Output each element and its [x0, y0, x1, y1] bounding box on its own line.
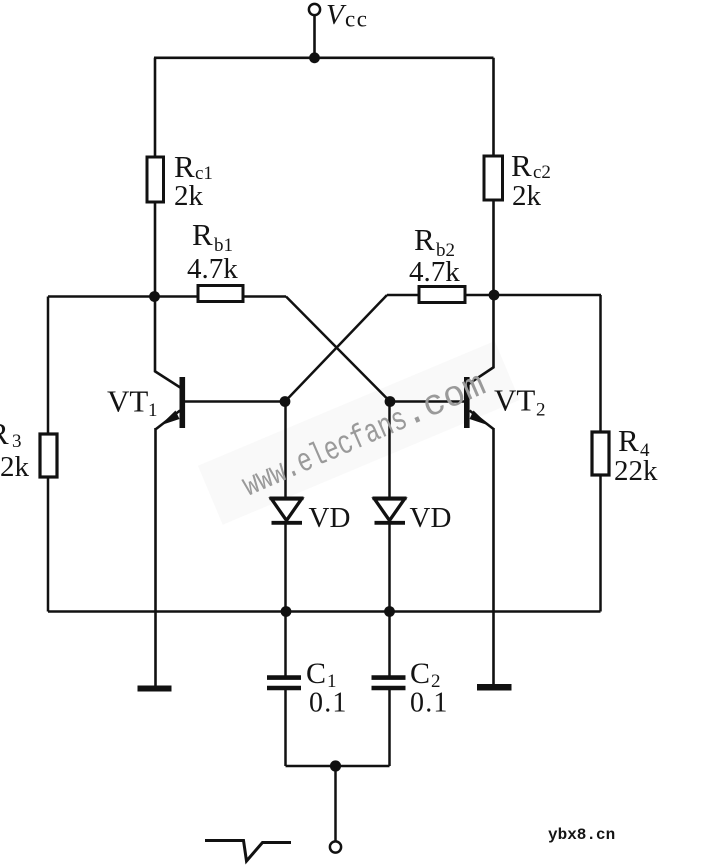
wire Rc1 to node B1 — [154, 200, 157, 297]
junction Vcc node — [309, 52, 320, 63]
wire VD2 to bottom rail — [388, 523, 391, 612]
transistor VT2 base bar — [464, 377, 470, 428]
transistor VT1 emitter arrow — [160, 411, 180, 426]
transistor VT1 base bar — [180, 377, 186, 428]
junction bottom rail right — [384, 606, 395, 617]
wire C2 down — [388, 689, 391, 766]
diode VD1 — [270, 496, 304, 500]
ground VT2 — [477, 684, 512, 691]
wire base VT2 node down to diode VD2 — [388, 402, 391, 499]
junction node base VT2 — [385, 396, 396, 407]
svg-text:1: 1 — [148, 400, 158, 421]
svg-text:R: R — [174, 149, 195, 184]
wire bottom rail — [48, 610, 601, 613]
svg-text:2k: 2k — [174, 180, 204, 212]
svg-text:R: R — [192, 217, 213, 252]
wire VD1 to bottom rail — [284, 523, 287, 612]
trigger pulse waveform — [205, 841, 291, 862]
svg-text:C: C — [306, 657, 326, 690]
junction node B2 — [489, 290, 500, 301]
wire output stub — [334, 766, 337, 842]
wire rail to C2 — [388, 612, 391, 677]
resistor Rc1 — [147, 157, 164, 202]
svg-text:0.1: 0.1 — [309, 688, 348, 719]
transistor VT2 base lead — [390, 400, 464, 403]
transistor VT2 collector lead — [469, 367, 495, 384]
svg-text:R: R — [0, 416, 9, 451]
wire bottom joining bar — [286, 765, 390, 768]
svg-text:2: 2 — [536, 400, 546, 421]
wire emitter VT1 down — [154, 428, 157, 686]
svg-text:ybx8.cn: ybx8.cn — [548, 826, 615, 844]
svg-text:0.1: 0.1 — [410, 688, 449, 719]
svg-text:R: R — [618, 423, 639, 458]
wire right drop to Rc2 — [492, 58, 495, 157]
svg-text:R: R — [414, 222, 435, 257]
wire left horizontal at node B1 — [48, 295, 286, 298]
resistor Rb1 — [198, 286, 243, 302]
wire Rc2 to node B2 — [492, 199, 495, 295]
svg-text:cc: cc — [345, 7, 368, 32]
svg-text:VD: VD — [410, 502, 452, 534]
wire top rail — [154, 56, 494, 59]
wire collector drop VT1 — [154, 297, 157, 373]
svg-text:V: V — [326, 0, 347, 31]
wire right rail (R4 branch) — [599, 295, 602, 612]
terminal output — [330, 841, 341, 852]
wire left drop to Rc1 — [154, 58, 157, 158]
svg-text:4.7k: 4.7k — [187, 253, 238, 285]
svg-text:3: 3 — [12, 431, 22, 452]
svg-text:2k: 2k — [0, 451, 30, 483]
transistor VT2 emitter lead — [470, 411, 494, 430]
wire right horizontal at node B2 — [387, 294, 601, 297]
wire Vcc stub — [313, 15, 316, 58]
wire collector drop VT2 — [492, 295, 495, 368]
resistor R3 — [40, 434, 57, 477]
wire C1 down — [284, 689, 287, 766]
junction node base VT1 — [280, 396, 291, 407]
transistor VT1 collector lead — [155, 371, 182, 388]
ground VT1 — [138, 686, 172, 692]
wire base VT1 node down to diode VD1 — [284, 402, 287, 499]
transistor VT1 base lead — [185, 400, 285, 403]
wire cross diagonal B (Rb2 to base of VT1) — [285, 295, 387, 402]
watermark band — [198, 341, 520, 525]
capacitor C2 — [372, 675, 406, 680]
junction node B1 — [149, 291, 160, 302]
wire cross diagonal A (Rb1 to base of VT2) — [286, 297, 390, 402]
transistor VT1 emitter lead — [156, 411, 180, 430]
svg-text:VT: VT — [494, 383, 535, 418]
junction bottom rail left — [281, 606, 292, 617]
wire rail to C1 — [284, 612, 287, 677]
wire emitter VT2 down — [492, 428, 495, 685]
wire left rail (R3 branch) — [47, 297, 50, 612]
capacitor C1 — [267, 675, 301, 680]
svg-text:R: R — [511, 148, 532, 183]
resistor R4 — [592, 432, 609, 475]
resistor Rb2 — [419, 287, 465, 303]
diode VD2 — [373, 496, 407, 500]
svg-text:C: C — [410, 657, 430, 690]
svg-text:VD: VD — [309, 502, 351, 534]
resistor Rc2 — [484, 156, 503, 200]
svg-text:22k: 22k — [614, 455, 658, 487]
terminal Vcc — [309, 4, 320, 15]
svg-text:4.7k: 4.7k — [409, 256, 460, 288]
watermark www.elecfans.com — [236, 364, 492, 506]
svg-text:VT: VT — [107, 384, 148, 419]
svg-text:2k: 2k — [512, 180, 542, 212]
transistor VT2 emitter arrow — [470, 411, 490, 426]
junction output node — [330, 760, 341, 771]
